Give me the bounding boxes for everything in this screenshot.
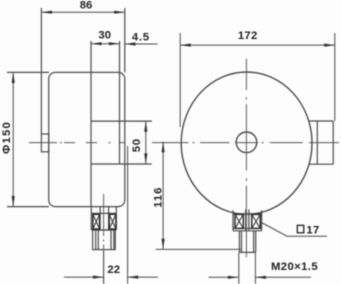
svg-text:17: 17	[306, 224, 319, 236]
svg-text:172: 172	[238, 30, 258, 42]
svg-text:22: 22	[107, 264, 120, 276]
svg-text:116: 116	[153, 187, 165, 208]
svg-text:86: 86	[80, 0, 93, 11]
svg-text:4.5: 4.5	[132, 32, 150, 44]
svg-text:50: 50	[131, 138, 143, 152]
svg-text:Φ150: Φ150	[1, 121, 13, 154]
svg-text:30: 30	[98, 30, 111, 42]
svg-text:M20×1.5: M20×1.5	[271, 261, 318, 273]
